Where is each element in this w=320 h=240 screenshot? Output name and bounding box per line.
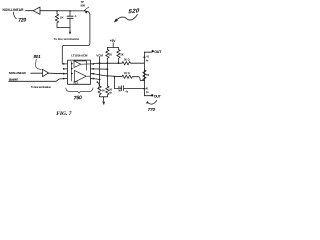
leader curl near pin 5	[98, 82, 100, 89]
comparator IC U1 outline	[68, 60, 91, 84]
R6 value	[146, 74, 149, 77]
junction dot top of output node	[143, 56, 145, 58]
small annotation 41	[146, 55, 149, 58]
pin 6 stub (right)	[90, 73, 93, 75]
wire lower input to pin 4	[9, 79, 64, 82]
svg-text:1K Ω: 1K Ω	[124, 58, 130, 61]
test point label TP 908	[81, 0, 86, 7]
IC part number above	[71, 54, 88, 58]
leader arrow for 520	[117, 15, 137, 21]
load resistor R6 (vertical on output node)	[143, 70, 146, 81]
leader from 801 to buffer	[35, 59, 41, 69]
output wire 1	[144, 51, 151, 53]
figure caption FIG. 7	[56, 111, 72, 117]
svg-text:1K: 1K	[60, 15, 64, 19]
pin 2 stub (left)	[64, 68, 67, 70]
node label NON-LINEAR FM (top-left input)	[3, 8, 25, 12]
pin 1 stub (left)	[62, 63, 67, 65]
resistor R1 (vertical, top-left network)	[55, 11, 58, 28]
R2 value	[124, 58, 130, 61]
node label VCM at top of bus 1	[96, 53, 103, 57]
wire top input to inverter	[26, 10, 34, 12]
svg-text:1K Ω: 1K Ω	[124, 72, 130, 75]
wire stage1 apex to pin 8	[81, 63, 91, 65]
coupling capacitor C2	[122, 86, 145, 91]
svg-text:5Z1: 5Z1	[73, 81, 78, 85]
input bus vertical inside U1	[71, 62, 73, 82]
RA value	[109, 53, 112, 56]
label 801	[34, 54, 42, 59]
svg-text:760: 760	[73, 95, 82, 102]
R4 value	[102, 89, 105, 92]
C1 value	[74, 14, 77, 18]
wire stage2 apex to right edge	[86, 75, 90, 77]
svg-text:1K: 1K	[120, 53, 123, 56]
pin 4 stub (left)	[64, 78, 67, 80]
svg-text:FIG. 7: FIG. 7	[56, 111, 72, 117]
junction node on wire at C1	[69, 10, 71, 12]
input junction arrows inside U1	[71, 63, 73, 65]
wire pin6 line to series resistor R3	[93, 74, 122, 77]
pull-up resistor RA	[106, 48, 109, 64]
svg-text:To line termination: To line termination	[31, 86, 51, 89]
series resistor R2 (horizontal)	[122, 62, 144, 65]
R3 value	[124, 72, 130, 75]
arrow to line termination	[69, 28, 71, 33]
junction node on wire at R1	[56, 10, 58, 12]
supply label +5V	[110, 39, 117, 43]
svg-text:OUT: OUT	[154, 94, 162, 98]
svg-text:NON-LINEAR: NON-LINEAR	[9, 71, 27, 75]
buffer T2 (points right)	[43, 69, 49, 76]
wire joining terminator bottoms	[100, 96, 108, 98]
svg-text:1K: 1K	[109, 53, 112, 56]
svg-text:801: 801	[34, 54, 42, 59]
op-amp stage 2 triangle inside U1	[74, 70, 86, 82]
R1 value 1K	[60, 15, 64, 19]
svg-text:LT1016 ACM: LT1016 ACM	[71, 54, 88, 58]
svg-text:OUT: OUT	[154, 50, 162, 54]
IC bottom marking	[73, 81, 78, 85]
output wire 2	[144, 95, 151, 97]
wire middle input to buffer T2	[31, 72, 43, 74]
junction dot at corner	[85, 11, 87, 13]
supply stem and tee	[107, 43, 118, 48]
label 760	[73, 95, 82, 102]
svg-text:NON-LINEAR: NON-LINEAR	[3, 8, 25, 12]
RB value	[120, 53, 123, 56]
node label NON-LINEAR FM (middle input)	[9, 71, 27, 75]
wire from corner down the right side to IC	[62, 15, 90, 64]
pin 8 stub (right)	[90, 63, 93, 65]
small annotation 4x	[146, 60, 149, 63]
svg-text:To line termination: To line termination	[54, 37, 80, 41]
wire pin8 output line to output node (y63)	[93, 62, 122, 65]
label 770	[148, 107, 156, 112]
pin 3 stub (left)	[64, 73, 67, 75]
C2 annotations	[118, 86, 121, 89]
R5 value	[109, 89, 112, 95]
wire pin7 to bus 2	[93, 68, 107, 70]
figure label 520	[128, 7, 141, 15]
series resistor R3 (horizontal)	[122, 75, 144, 81]
wire from T1 base to corner	[40, 11, 90, 15]
branch wire down from R3 line	[115, 77, 122, 89]
terminator resistor R4 (bus 1)	[98, 86, 101, 97]
ground arrow	[103, 97, 105, 101]
output node vertical	[143, 52, 145, 95]
svg-text:720: 720	[18, 17, 27, 24]
small annotation near output 2	[146, 91, 149, 94]
inverter/buffer T1 (points left)	[33, 7, 40, 14]
capacitor C1	[67, 11, 73, 28]
note to line termination (lower)	[31, 86, 51, 89]
svg-text:908: 908	[81, 3, 86, 7]
label 720	[18, 17, 27, 24]
VCM stem	[99, 57, 101, 63]
pull-up resistor RB	[117, 48, 120, 64]
feedback line top inside U1	[74, 61, 86, 70]
bus 2 vertical	[106, 63, 108, 86]
bus 1 vertical	[99, 63, 101, 86]
svg-text:770: 770	[148, 107, 156, 112]
pin 7 stub (right)	[90, 68, 93, 70]
label 720 leader	[13, 12, 16, 19]
small annotation 4x lower	[146, 88, 149, 91]
leader arrow from TP label to wire corner	[85, 7, 89, 10]
leader arrow for 770	[148, 100, 157, 104]
wire pin5 to bus 1	[93, 78, 99, 81]
output label OUT (top)	[152, 50, 163, 54]
underbrace below U1	[66, 88, 93, 93]
note to line termination (top)	[54, 37, 80, 41]
wire joining R1 and C1 bottoms	[57, 27, 70, 29]
wire T2 output to pin 3	[49, 72, 64, 75]
terminator resistor R5 (bus 2)	[106, 86, 109, 97]
pin 5 stub (right)	[90, 78, 93, 80]
node label BLK/WHT (lower input)	[9, 78, 19, 82]
op-amp stage 1 triangle inside U1	[74, 61, 81, 68]
junction dot lower output node	[143, 88, 145, 90]
output label OUT (bottom)	[151, 94, 162, 98]
svg-text:TP: TP	[81, 0, 85, 4]
